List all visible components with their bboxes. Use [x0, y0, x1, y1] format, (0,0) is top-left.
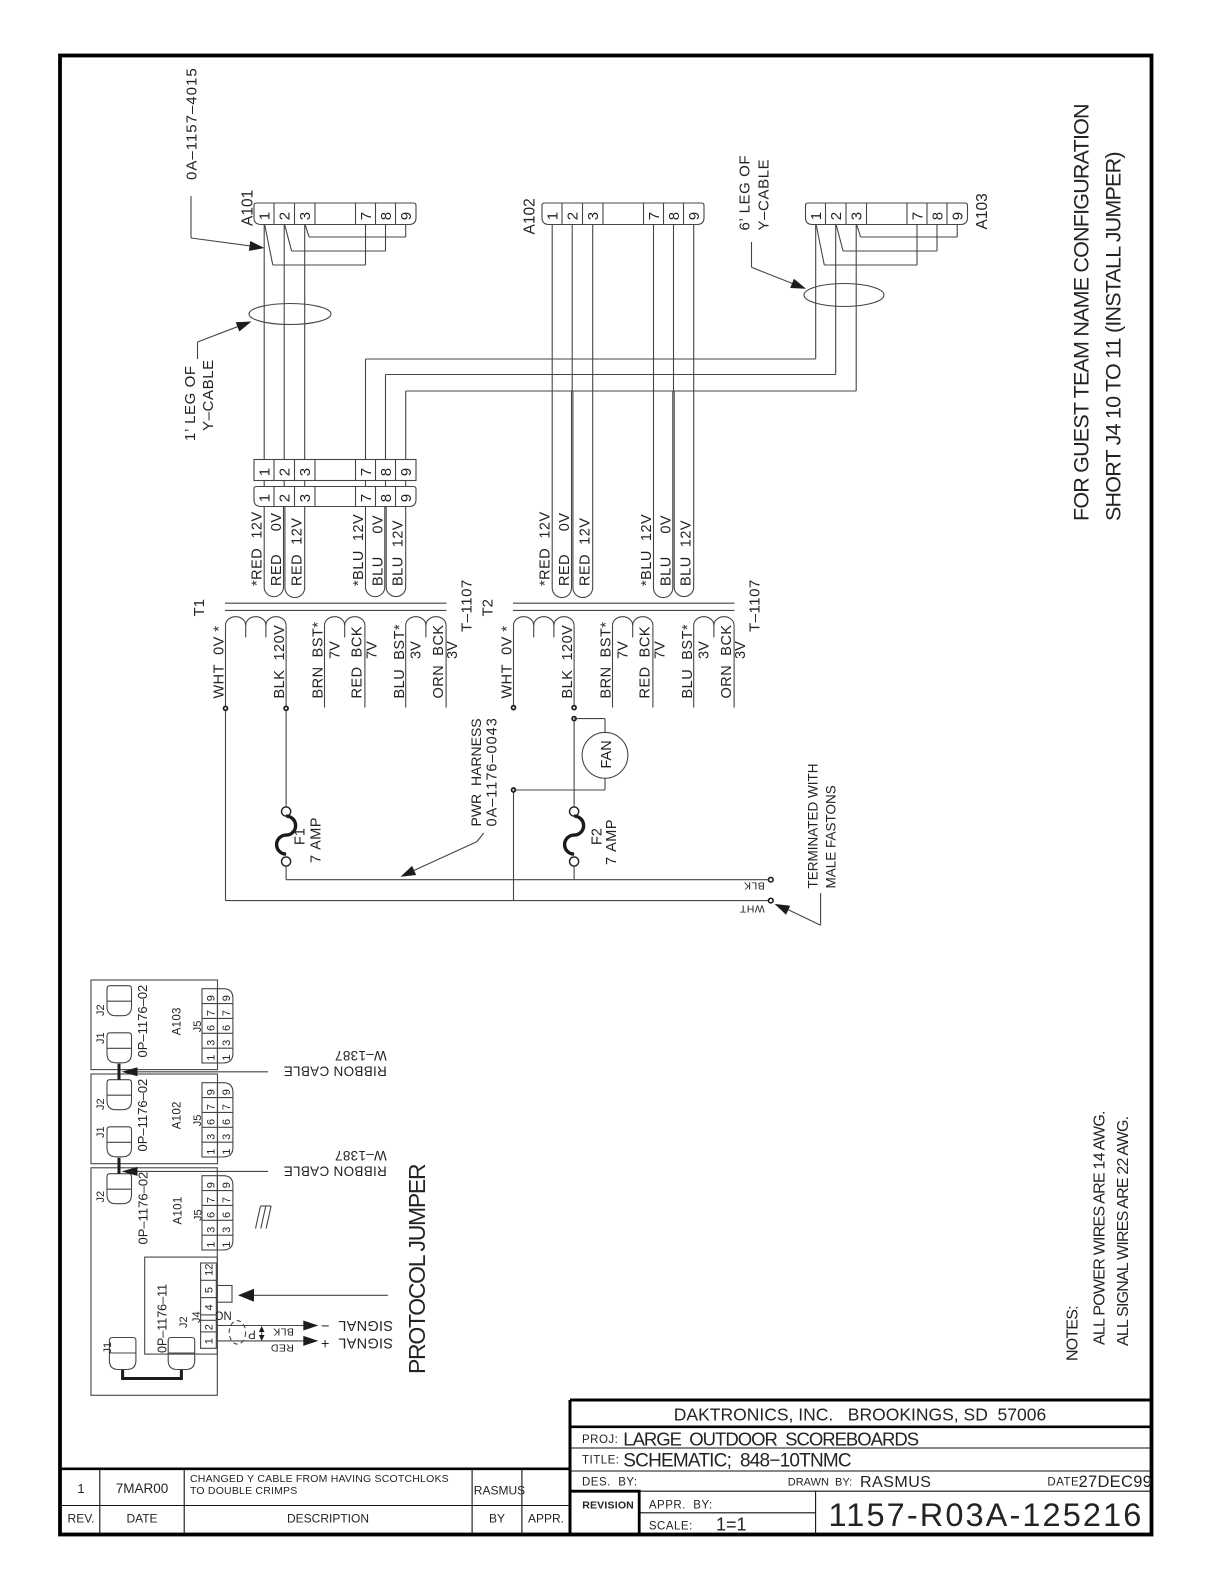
svg-text:3: 3 — [849, 212, 866, 220]
wire fuse F2 to BLK bus — [573, 866, 575, 880]
svg-text:9: 9 — [398, 494, 415, 502]
svg-text:3V: 3V — [696, 641, 712, 659]
junction dots T2 primary leads — [512, 706, 577, 792]
svg-text:7MAR00: 7MAR00 — [116, 1481, 169, 1496]
svg-text:7: 7 — [358, 468, 375, 476]
fan motor — [582, 732, 628, 778]
svg-text:3V: 3V — [733, 641, 749, 659]
svg-text:6: 6 — [205, 1212, 217, 1218]
svg-text:9: 9 — [205, 1089, 217, 1095]
svg-text:SIGNAL +: SIGNAL + — [321, 1334, 393, 1350]
transformer T1 primary labels WHT 0V / BLK 120V — [211, 625, 288, 699]
svg-text:TITLE:: TITLE: — [582, 1455, 620, 1467]
svg-text:BLU 12V: BLU 12V — [391, 520, 407, 586]
svg-text:J1: J1 — [95, 1126, 107, 1138]
revision cell box — [570, 1491, 639, 1534]
protocol jumper plug on J4 pins 4-5 — [217, 1286, 232, 1303]
svg-text:6: 6 — [205, 1025, 217, 1031]
wire pills T1 primary RED — [264, 507, 305, 598]
cable hash mark — [256, 1206, 272, 1229]
svg-text:DAKTRONICS, INC. BROOKINGS,: DAKTRONICS, INC. BROOKINGS, SD 57006 — [674, 1405, 1046, 1425]
transformer T2 core — [513, 603, 735, 610]
transformer T2 primary winding — [514, 617, 575, 708]
A102 connector J5 — [202, 1083, 233, 1157]
BLK bus wire — [286, 879, 768, 881]
leader ribbon cable 1 — [122, 1067, 269, 1076]
svg-text:4: 4 — [204, 1304, 216, 1310]
driver board A101 outline — [91, 1168, 217, 1396]
svg-text:T–1107: T–1107 — [747, 579, 764, 632]
A102 label 0P-1176-02 — [135, 1079, 150, 1152]
wire A103 pin3 to plug pin9 — [406, 225, 857, 460]
svg-text:6: 6 — [205, 1119, 217, 1125]
svg-text:7 AMP: 7 AMP — [604, 819, 620, 865]
svg-text:F1: F1 — [293, 828, 309, 845]
svg-text:1: 1 — [257, 212, 274, 220]
svg-text:CHANGED Y CABLE FROM HAVING SC: CHANGED Y CABLE FROM HAVING SCOTCHLOKS — [190, 1473, 449, 1485]
driver board A103 outline — [91, 980, 218, 1070]
svg-text:J5: J5 — [193, 1209, 205, 1221]
revision entry row — [77, 1473, 525, 1498]
label A102 — [522, 198, 539, 234]
svg-text:APPR. BY:: APPR. BY: — [649, 1500, 713, 1512]
svg-text:1: 1 — [204, 1338, 216, 1344]
cable marker ellipse on 6-ft leg — [804, 284, 884, 307]
svg-text:1: 1 — [205, 1055, 217, 1061]
wire A102 pin3 down to T2 — [592, 225, 594, 392]
sub-board label J2 — [178, 1316, 190, 1328]
svg-text:A103: A103 — [172, 1007, 184, 1035]
wire A101 pin1 down to plug pin1 — [263, 225, 265, 460]
A103 board name label — [172, 1007, 184, 1035]
svg-text:A102: A102 — [172, 1101, 184, 1129]
wire labels T1 secondary BLU — [351, 514, 407, 586]
A101 crossover jumpers pins 1-7 2-8 3-9 — [265, 225, 406, 265]
svg-text:6: 6 — [221, 1119, 233, 1125]
transformer T1 secondary winding 3V — [406, 617, 446, 708]
svg-text:8: 8 — [929, 212, 946, 220]
fuse F1 — [277, 807, 296, 866]
svg-text:3V: 3V — [408, 641, 424, 659]
svg-text:3: 3 — [221, 1227, 233, 1233]
transformer T1 3V winding labels — [392, 624, 461, 699]
svg-text:7: 7 — [221, 1104, 233, 1110]
svg-text:6: 6 — [221, 1025, 233, 1031]
transformer T1 primary winding — [226, 617, 287, 708]
polarity dashed ellipse — [229, 1321, 245, 1344]
svg-text:7: 7 — [205, 1010, 217, 1016]
wire A103 pin1 to plug pin7 — [366, 225, 816, 460]
A101 jack J2 — [107, 1174, 132, 1204]
svg-text:9: 9 — [686, 212, 703, 220]
svg-text:BLK 120V: BLK 120V — [272, 625, 288, 699]
svg-text:9: 9 — [221, 995, 233, 1001]
wire J4 pin2 signal minus — [216, 1321, 318, 1331]
svg-text:1: 1 — [77, 1481, 84, 1496]
svg-text:RASMUS: RASMUS — [860, 1474, 931, 1491]
svg-text:RIBBON CABLE: RIBBON CABLE — [283, 1064, 386, 1079]
wire T2 WHT lead down — [513, 792, 515, 900]
A103 label J5 — [192, 1021, 204, 1033]
A102 jack J1 — [107, 1127, 132, 1157]
svg-text:*BLU 12V: *BLU 12V — [639, 514, 655, 586]
svg-text:0P–1176–11: 0P–1176–11 — [156, 1284, 170, 1353]
leader label TERMINATED WITH MALE FASTONS — [775, 764, 839, 926]
title scale cell — [649, 1515, 747, 1535]
wire T1 BLK lead to fuse F1 — [285, 711, 287, 807]
leader label 0A-1157-4015 — [184, 67, 265, 251]
svg-text:1: 1 — [205, 1242, 217, 1248]
A101 label J2 — [95, 1191, 107, 1203]
connector A101 — [254, 203, 416, 225]
wire fuse F1 to BLK bus — [285, 866, 287, 880]
svg-text:9: 9 — [221, 1089, 233, 1095]
A101 connector J5 — [202, 1176, 233, 1250]
svg-text:0A–1176–0043: 0A–1176–0043 — [485, 717, 501, 826]
svg-text:MALE FASTONS: MALE FASTONS — [823, 785, 838, 888]
svg-text:RED BCK: RED BCK — [350, 626, 366, 699]
svg-text:9: 9 — [221, 1182, 233, 1188]
transformer T2 3V winding labels — [680, 624, 749, 699]
svg-text:7V: 7V — [327, 641, 343, 659]
A103 jack J1 — [107, 1033, 132, 1063]
BLK faston terminal — [769, 877, 774, 882]
svg-text:*RED 12V: *RED 12V — [538, 511, 554, 586]
svg-text:1: 1 — [545, 212, 562, 220]
wire A102 pin8 down to T2 — [673, 225, 675, 392]
A103 jack J2 — [107, 986, 132, 1016]
svg-text:REV.: REV. — [68, 1512, 95, 1526]
svg-text:ALL SIGNAL WIRES ARE 22 AWG.: ALL SIGNAL WIRES ARE 22 AWG. — [1115, 1117, 1132, 1346]
A102 jack J2 — [107, 1080, 132, 1110]
wire pills T2 primary RED — [552, 392, 593, 598]
svg-text:SHORT J4 10 TO 11 (INSTALL JUM: SHORT J4 10 TO 11 (INSTALL JUMPER) — [1101, 152, 1125, 521]
svg-text:WHT 0V *: WHT 0V * — [499, 626, 515, 699]
svg-text:NC: NC — [215, 1309, 232, 1321]
svg-text:BLU 0V: BLU 0V — [658, 515, 674, 586]
svg-text:ORN BCK: ORN BCK — [719, 624, 735, 698]
label SIGNAL minus — [321, 1317, 393, 1333]
svg-text:SCHEMATIC; 848−10TNMC: SCHEMATIC; 848−10TNMC — [623, 1450, 851, 1471]
leader label 1-ft leg of Y-cable — [182, 322, 251, 442]
transformer T2 secondary winding 3V — [694, 617, 734, 708]
note SHORT J4 10 TO 11 INSTALL JUMPER — [1101, 152, 1125, 521]
drawing number 1157-R03A-125216 — [829, 1497, 1144, 1533]
svg-text:RED BCK: RED BCK — [638, 626, 654, 699]
A103 crossover jumpers pins 1-7 2-8 3-9 — [816, 225, 957, 265]
label NC — [215, 1309, 232, 1321]
A103 label 0P-1176-02 — [135, 985, 150, 1058]
label RED signal wire — [271, 1342, 294, 1354]
svg-text:J1: J1 — [95, 1032, 107, 1044]
wire A101 pin2 down to plug pin2 — [283, 225, 285, 460]
svg-text:PWR HARNESS: PWR HARNESS — [468, 718, 484, 826]
wire pills T1 secondary BLU — [366, 507, 406, 597]
note ALL POWER WIRES ARE 14 AWG. — [1092, 1111, 1109, 1345]
fuse F2 — [565, 807, 584, 866]
svg-text:7: 7 — [646, 212, 663, 220]
label J4 — [191, 1311, 203, 1323]
svg-text:A103: A103 — [974, 193, 991, 229]
svg-text:BY: BY — [489, 1512, 505, 1526]
label T-1107 for T1 — [459, 579, 476, 632]
svg-text:12: 12 — [204, 1264, 216, 1276]
svg-text:DES. BY:: DES. BY: — [582, 1477, 638, 1489]
A101 label J1 — [102, 1342, 114, 1354]
note FOR GUEST TEAM NAME CONFIGURATION — [1070, 104, 1094, 521]
svg-text:T–1107: T–1107 — [459, 579, 476, 632]
svg-text:7: 7 — [358, 494, 375, 502]
label F1 7 AMP — [293, 817, 325, 863]
svg-text:J2: J2 — [95, 1191, 107, 1203]
wire fan to T2 WHT lead — [514, 778, 606, 790]
wire J4 pin1 signal plus — [216, 1336, 318, 1346]
A102 label J2 — [95, 1098, 107, 1110]
svg-text:1: 1 — [221, 1242, 233, 1248]
svg-text:J1: J1 — [102, 1342, 114, 1354]
svg-text:RED: RED — [271, 1342, 294, 1354]
transformer T2 7V winding labels — [599, 621, 669, 698]
A102 label J5 — [192, 1115, 204, 1127]
svg-text:REVISION: REVISION — [582, 1500, 634, 1512]
svg-text:7 AMP: 7 AMP — [308, 817, 324, 863]
label F2 7 AMP — [590, 819, 620, 865]
wire T2 BLK lead to fuse F2 — [573, 721, 575, 807]
title revision cell — [582, 1500, 634, 1512]
svg-text:FAN: FAN — [599, 740, 615, 768]
leader label PWR HARNESS 0A-1176-0043 — [401, 717, 501, 877]
svg-text:6’ LEG OF: 6’ LEG OF — [736, 155, 753, 231]
svg-text:NOTES:: NOTES: — [1064, 1306, 1081, 1361]
label PROTOCOL JUMPER — [404, 1164, 430, 1374]
arrow to protocol jumper plug — [238, 1289, 388, 1302]
svg-text:WHT: WHT — [739, 902, 764, 914]
junction dots T1 primary leads — [224, 706, 289, 710]
svg-text:2: 2 — [204, 1324, 216, 1330]
svg-text:PROJ:: PROJ: — [582, 1434, 618, 1446]
svg-text:3V: 3V — [445, 641, 461, 659]
wire T1 WHT lead down — [225, 711, 227, 901]
svg-text:J2: J2 — [178, 1316, 190, 1328]
protocol jumper cable J1 to J2 — [123, 1370, 182, 1379]
svg-text:9: 9 — [205, 1182, 217, 1188]
svg-text:J2: J2 — [95, 1004, 107, 1016]
connector J4 — [201, 1263, 217, 1348]
svg-text:7V: 7V — [364, 641, 380, 659]
leader ribbon cable 2 — [122, 1167, 269, 1176]
svg-text:0P–1176–02: 0P–1176–02 — [135, 985, 150, 1058]
svg-text:BLU 0V: BLU 0V — [370, 515, 386, 586]
label BLK signal wire — [273, 1326, 294, 1338]
label 0P-1176-11 — [156, 1284, 170, 1353]
title appr by cell — [649, 1500, 713, 1512]
svg-text:0A–1157–4015: 0A–1157–4015 — [184, 67, 201, 180]
label T2 — [480, 599, 497, 617]
svg-text:BLU 12V: BLU 12V — [679, 520, 695, 586]
svg-text:A101: A101 — [240, 190, 257, 226]
svg-text:BLK 120V: BLK 120V — [560, 625, 576, 699]
svg-text:7V: 7V — [652, 641, 668, 659]
svg-text:9: 9 — [205, 995, 217, 1001]
wire A102 pin1 down to T2 — [551, 225, 553, 392]
label SIGNAL plus — [321, 1334, 393, 1350]
svg-text:1157-R03A-125216: 1157-R03A-125216 — [829, 1497, 1144, 1533]
svg-text:8: 8 — [378, 494, 395, 502]
svg-text:3: 3 — [221, 1040, 233, 1046]
svg-text:*RED 12V: *RED 12V — [250, 511, 266, 586]
svg-text:1=1: 1=1 — [716, 1515, 747, 1535]
svg-text:3: 3 — [205, 1134, 217, 1140]
WHT bus wire — [226, 900, 769, 902]
A101 jack J1 — [109, 1338, 135, 1370]
label BLK bus — [744, 880, 765, 892]
wire A101 pin3 down to plug pin3 — [304, 225, 306, 460]
svg-text:1: 1 — [221, 1149, 233, 1155]
A103 label J2 — [95, 1004, 107, 1016]
plug mating pin stubs — [264, 481, 406, 487]
wire labels T1 primary RED — [250, 511, 306, 586]
svg-text:RED 0V: RED 0V — [557, 513, 573, 587]
ribbon cable link A103-J1 to A102-J2 — [118, 1064, 121, 1080]
svg-text:27DEC99: 27DEC99 — [1079, 1473, 1153, 1491]
svg-text:3: 3 — [297, 494, 314, 502]
svg-text:TERMINATED WITH: TERMINATED WITH — [806, 764, 821, 889]
title proj row — [582, 1429, 919, 1450]
svg-text:J4: J4 — [191, 1311, 203, 1323]
svg-text:1: 1 — [257, 468, 274, 476]
svg-text:1: 1 — [808, 212, 825, 220]
svg-text:RED 12V: RED 12V — [578, 518, 594, 586]
svg-text:DRAWN BY:: DRAWN BY: — [788, 1477, 852, 1489]
label RIBBON CABLE W-1387 lower — [283, 1148, 386, 1179]
connector A102 — [542, 203, 704, 225]
svg-text:TO DOUBLE CRIMPS: TO DOUBLE CRIMPS — [190, 1485, 297, 1497]
svg-text:T2: T2 — [480, 599, 497, 617]
transformer T1 secondary winding 7V — [325, 617, 365, 708]
wire labels T2 secondary BLU — [639, 514, 695, 586]
svg-text:8: 8 — [666, 212, 683, 220]
label T1 — [191, 599, 208, 617]
svg-text:WHT 0V *: WHT 0V * — [211, 626, 227, 699]
A101 board name label — [173, 1196, 185, 1224]
svg-text:1: 1 — [221, 1055, 233, 1061]
svg-text:BRN BST*: BRN BST* — [311, 621, 327, 698]
svg-text:J2: J2 — [95, 1098, 107, 1110]
svg-text:FOR GUEST TEAM NAME CONFIGURAT: FOR GUEST TEAM NAME CONFIGURATION — [1070, 104, 1094, 521]
svg-text:9: 9 — [398, 468, 415, 476]
title block grid — [570, 1400, 1152, 1535]
polarity double arrow — [259, 1326, 265, 1341]
label A103 — [974, 193, 991, 229]
svg-text:*BLU 12V: *BLU 12V — [351, 514, 367, 586]
wire labels T2 primary RED — [538, 511, 594, 586]
leader label 6-ft leg of Y-cable — [736, 155, 806, 289]
svg-text:3: 3 — [585, 212, 602, 220]
svg-text:BLU BST*: BLU BST* — [680, 624, 696, 699]
svg-text:RASMUS: RASMUS — [474, 1484, 525, 1498]
label WHT bus — [739, 902, 764, 914]
svg-text:5: 5 — [204, 1287, 216, 1293]
svg-text:APPR.: APPR. — [528, 1512, 564, 1526]
svg-text:1: 1 — [205, 1149, 217, 1155]
svg-text:9: 9 — [398, 212, 415, 220]
svg-text:7: 7 — [205, 1104, 217, 1110]
transformer T1 7V winding labels — [311, 621, 381, 698]
wire A102 pin2 down to T2 — [571, 225, 573, 392]
transformer T1 core — [225, 603, 447, 610]
svg-text:DESCRIPTION: DESCRIPTION — [287, 1512, 369, 1526]
svg-text:BLK: BLK — [744, 880, 765, 892]
driver board A102 outline — [91, 1074, 218, 1164]
svg-text:9: 9 — [950, 212, 967, 220]
svg-text:3: 3 — [221, 1134, 233, 1140]
label A101 — [240, 190, 257, 226]
svg-text:1: 1 — [257, 494, 274, 502]
label RIBBON CABLE W-1387 upper — [283, 1048, 386, 1079]
A102 label J1 — [95, 1126, 107, 1138]
wire T2 BLK lead to fan — [574, 719, 605, 733]
svg-text:7: 7 — [358, 212, 375, 220]
svg-text:0P–1176–02: 0P–1176–02 — [136, 1172, 151, 1245]
svg-text:3: 3 — [297, 468, 314, 476]
svg-text:2: 2 — [565, 212, 582, 220]
svg-text:T1: T1 — [191, 599, 208, 617]
svg-text:ALL POWER WIRES ARE 14 AWG.: ALL POWER WIRES ARE 14 AWG. — [1092, 1111, 1109, 1345]
svg-text:2: 2 — [277, 468, 294, 476]
ribbon cable link A102-J1 to A101-J2 — [118, 1158, 121, 1174]
svg-text:3: 3 — [205, 1040, 217, 1046]
svg-text:0P–1176–02: 0P–1176–02 — [135, 1079, 150, 1152]
title title row — [582, 1450, 851, 1471]
svg-text:PROTOCOL JUMPER: PROTOCOL JUMPER — [404, 1164, 430, 1374]
revision header row — [68, 1512, 564, 1526]
svg-text:BRN BST*: BRN BST* — [599, 621, 615, 698]
svg-text:2: 2 — [828, 212, 845, 220]
svg-text:RIBBON CABLE: RIBBON CABLE — [283, 1164, 386, 1179]
svg-text:7: 7 — [909, 212, 926, 220]
svg-text:RED 12V: RED 12V — [290, 518, 306, 586]
svg-text:BLU BST*: BLU BST* — [392, 624, 408, 699]
wire pills T2 secondary BLU — [654, 392, 694, 598]
svg-text:BLK: BLK — [273, 1326, 294, 1338]
svg-text:SCALE:: SCALE: — [649, 1521, 693, 1533]
label P polarity — [248, 1327, 256, 1339]
svg-text:P: P — [248, 1327, 256, 1339]
revision strip grid — [60, 1469, 570, 1535]
svg-text:7: 7 — [221, 1010, 233, 1016]
A101 label 0P-1176-02 — [136, 1172, 151, 1245]
WHT faston terminal — [769, 898, 774, 903]
svg-text:Y–CABLE: Y–CABLE — [756, 159, 773, 231]
svg-text:DATE: DATE — [126, 1512, 157, 1526]
svg-text:Y–CABLE: Y–CABLE — [200, 359, 217, 431]
svg-text:RED 0V: RED 0V — [269, 513, 285, 587]
cable marker ellipse on 1-ft leg — [249, 304, 331, 325]
svg-text:LARGE OUTDOOR SCOREBOARDS: LARGE OUTDOOR SCOREBOARDS — [623, 1429, 918, 1450]
svg-text:3: 3 — [297, 212, 314, 220]
svg-text:W–1387: W–1387 — [335, 1048, 387, 1063]
transformer T2 secondary winding 7V — [613, 617, 653, 708]
svg-text:8: 8 — [378, 468, 395, 476]
wire A102 pin7 down to T2 — [653, 225, 655, 392]
note ALL SIGNAL WIRES ARE 22 AWG. — [1115, 1117, 1132, 1346]
svg-text:6: 6 — [221, 1212, 233, 1218]
connector A103 — [806, 203, 968, 225]
svg-text:A101: A101 — [173, 1196, 185, 1224]
svg-text:7: 7 — [205, 1197, 217, 1203]
svg-text:7V: 7V — [615, 641, 631, 659]
label NOTES: — [1064, 1306, 1081, 1361]
